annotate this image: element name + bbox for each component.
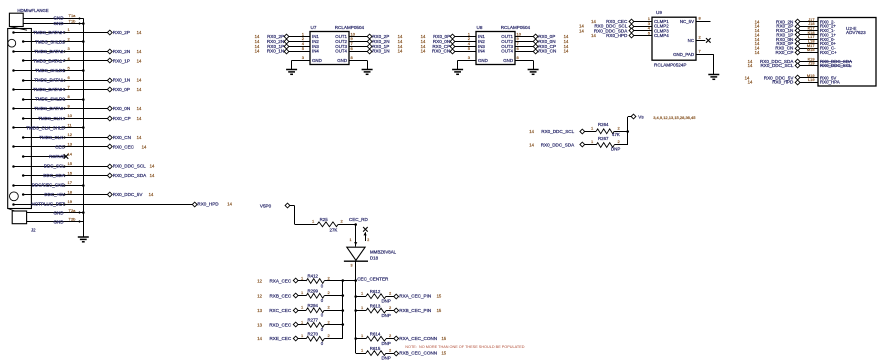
svg-text:14: 14 [150,164,155,169]
svg-text:CEC: CEC [55,144,65,149]
svg-text:Vs: Vs [638,115,644,120]
svg-text:GND: GND [54,21,65,26]
svg-text:MMBZ6V8AL: MMBZ6V8AL [370,250,397,255]
svg-text:RX0_DDC_SCL: RX0_DDC_SCL [541,129,574,134]
svg-text:19: 19 [68,199,73,204]
svg-text:15: 15 [437,308,442,313]
svg-text:14: 14 [137,135,142,140]
svg-text:14: 14 [137,116,142,121]
svg-text:T2b: T2b [69,217,77,222]
svg-text:RX0_DDC_SCL: RX0_DDC_SCL [760,63,793,68]
svg-text:V5P0: V5P0 [260,203,272,208]
svg-text:U7: U7 [311,25,317,30]
svg-text:14: 14 [579,28,584,33]
svg-text:R299: R299 [308,289,319,294]
svg-text:3: 3 [351,264,353,268]
svg-text:14: 14 [142,144,147,149]
svg-text:RX0_DDC_5V: RX0_DDC_5V [113,192,144,197]
svg-text:RXE_CEC: RXE_CEC [269,336,291,341]
svg-text:CEC_RD: CEC_RD [349,217,369,222]
svg-text:DNP: DNP [382,355,391,360]
svg-text:DNP: DNP [382,313,391,318]
svg-text:GND: GND [312,58,322,63]
svg-text:NC: NC [688,38,694,43]
svg-text:10: 10 [68,113,73,118]
svg-text:14: 14 [564,49,569,54]
svg-text:DDC_+5V: DDC_+5V [44,192,64,197]
svg-text:14: 14 [529,143,534,148]
svg-text:17: 17 [68,180,73,185]
svg-text:CEC_CENTER: CEC_CENTER [357,277,389,282]
svg-text:R614: R614 [370,331,381,336]
svg-text:OUT4: OUT4 [335,49,347,54]
svg-text:DDC_SCL: DDC_SCL [44,164,66,169]
svg-text:14: 14 [529,129,534,134]
svg-text:14: 14 [137,106,142,111]
svg-text:13: 13 [257,308,262,313]
svg-text:12: 12 [257,279,262,284]
svg-text:RX0_0P: RX0_0P [113,87,130,92]
svg-text:TMDS_SHLD0: TMDS_SHLD0 [35,97,65,102]
svg-text:14: 14 [149,192,154,197]
svg-text:GND: GND [478,58,488,63]
svg-text:13: 13 [68,142,73,147]
svg-text:RX0_CN: RX0_CN [538,49,556,54]
svg-text:RX0_C+: RX0_C+ [820,50,837,55]
svg-text:RCLAMP0504: RCLAMP0504 [335,25,365,30]
svg-text:R613: R613 [370,303,381,308]
svg-text:RX0_HPD: RX0_HPD [197,202,219,207]
svg-text:12: 12 [257,293,262,298]
svg-text:14: 14 [421,49,426,54]
svg-text:RX0_HPA: RX0_HPA [820,80,840,85]
svg-text:RXB_CEC_CONN: RXB_CEC_CONN [399,351,437,356]
svg-text:RXB_CEC_PIN: RXB_CEC_PIN [399,308,431,313]
svg-text:GND_PAD: GND_PAD [673,52,694,57]
svg-text:47K: 47K [612,132,620,137]
svg-text:RX0_CP: RX0_CP [113,116,131,121]
svg-text:15: 15 [68,161,73,166]
svg-text:14: 14 [137,49,142,54]
svg-text:3,4,9,12,13,15,28,36,45: 3,4,9,12,13,15,28,36,45 [653,115,696,120]
svg-text:IN4: IN4 [312,49,319,54]
svg-text:T1b: T1b [69,18,77,23]
svg-text:RSRVD: RSRVD [49,154,65,159]
svg-text:RX0_0N: RX0_0N [113,106,130,111]
svg-text:OUT4: OUT4 [501,49,513,54]
svg-text:U9: U9 [656,10,662,15]
svg-text:14: 14 [150,173,155,178]
svg-text:RX0_DDC_SCL: RX0_DDC_SCL [820,63,852,68]
svg-text:RX0_2P: RX0_2P [113,30,130,35]
svg-text:R267: R267 [598,136,609,141]
svg-text:RX0_DDC_SCL: RX0_DDC_SCL [113,164,146,169]
svg-text:14: 14 [227,202,232,207]
svg-text:13: 13 [257,322,262,327]
svg-text:DNP: DNP [382,341,391,346]
svg-text:CLMP4: CLMP4 [654,33,669,38]
svg-text:RX0_CEC: RX0_CEC [113,144,135,149]
svg-text:14: 14 [755,50,760,55]
svg-text:14: 14 [257,336,262,341]
svg-text:RX0_HPD: RX0_HPD [606,33,628,38]
svg-text:14: 14 [748,63,753,68]
svg-text:GND: GND [503,58,513,63]
svg-text:DDC_SDA: DDC_SDA [43,173,65,178]
svg-text:TMDS_DATA1+: TMDS_DATA1+ [33,58,65,63]
svg-text:RXD_CEC: RXD_CEC [269,322,292,327]
svg-text:RX0_1N: RX0_1N [113,78,130,83]
svg-text:J19: J19 [808,61,814,66]
svg-text:RXA_CEC_CONN: RXA_CEC_CONN [399,336,437,341]
svg-text:L19: L19 [808,77,815,82]
svg-text:RXC_CEC: RXC_CEC [269,308,292,313]
svg-text:TMDS_CLK_SHLD: TMDS_CLK_SHLD [26,125,65,130]
svg-text:14: 14 [255,49,260,54]
svg-text:D18: D18 [370,255,379,260]
svg-text:RX0_DDC_SDA: RX0_DDC_SDA [541,143,575,148]
svg-text:14: 14 [398,49,403,54]
svg-text:27K: 27K [330,227,338,232]
svg-text:15: 15 [441,336,446,341]
svg-text:RXB_CEC: RXB_CEC [269,293,291,298]
svg-text:R294: R294 [308,303,319,308]
svg-text:RX0_1P: RX0_1P [113,58,130,63]
svg-text:HOTPLUG_DET: HOTPLUG_DET [32,202,66,207]
svg-text:RX0_2N: RX0_2N [113,49,130,54]
svg-text:DNP: DNP [382,299,391,304]
svg-text:18: 18 [68,189,73,194]
svg-text:RX0_1N: RX0_1N [372,49,389,54]
svg-text:R612: R612 [370,289,381,294]
svg-text:TMDS_DATA2-: TMDS_DATA2- [34,49,65,54]
svg-text:GND: GND [337,58,347,63]
svg-text:16: 16 [68,170,73,175]
svg-text:RX0_CN: RX0_CN [113,135,131,140]
svg-text:R277: R277 [308,318,319,323]
svg-text:HDMIwFLANGE: HDMIwFLANGE [17,8,48,13]
svg-text:RX0_HPD: RX0_HPD [772,80,794,85]
svg-text:T2a: T2a [69,208,77,213]
svg-text:TMDS_CLK+: TMDS_CLK+ [38,116,65,121]
svg-text:TMDS_DATA2+: TMDS_DATA2+ [33,30,65,35]
svg-text:GND: GND [54,219,65,224]
svg-text:J2: J2 [31,227,36,232]
svg-text:14: 14 [748,80,753,85]
svg-text:14: 14 [591,33,596,38]
svg-text:TMDS_DATA0-: TMDS_DATA0- [34,106,65,111]
svg-text:14: 14 [137,30,142,35]
svg-text:15: 15 [441,351,446,356]
svg-text:RCLAMP0524P: RCLAMP0524P [654,63,686,68]
svg-text:RX0_CN: RX0_CN [432,49,450,54]
svg-text:R25: R25 [320,217,329,222]
svg-text:TMDS_DATA0+: TMDS_DATA0+ [33,87,65,92]
svg-text:R412: R412 [308,274,319,279]
svg-text:1: 1 [350,238,352,242]
svg-text:NOTE: NO MORE THAN ONE OF THE: NOTE: NO MORE THAN ONE OF THESE SHOULD B… [405,345,524,349]
svg-text:2: 2 [367,238,369,242]
svg-text:RX0_CP: RX0_CP [776,50,794,55]
svg-text:14: 14 [137,87,142,92]
svg-text:GND: GND [54,211,65,216]
svg-text:GND: GND [54,16,65,21]
svg-text:TMDS_SHLD2: TMDS_SHLD2 [35,39,65,44]
svg-text:DDC/CEC_GND: DDC/CEC_GND [32,183,66,188]
svg-text:TMDS_CLK-: TMDS_CLK- [39,135,65,140]
svg-text:RXA_CEC: RXA_CEC [269,279,291,284]
svg-text:R615: R615 [370,346,381,351]
svg-text:14: 14 [137,78,142,83]
svg-text:NC_5V: NC_5V [680,19,694,24]
svg-text:DNP: DNP [611,146,620,151]
svg-text:R270: R270 [308,331,319,336]
svg-text:ADV7623: ADV7623 [846,30,866,35]
svg-text:M18: M18 [807,47,815,52]
svg-text:R264: R264 [598,122,609,127]
svg-text:14: 14 [137,58,142,63]
svg-text:RXA_CEC_PIN: RXA_CEC_PIN [399,294,431,299]
svg-text:T1a: T1a [69,13,77,18]
svg-text:TMDS_DATA1-: TMDS_DATA1- [34,78,65,83]
svg-text:14: 14 [68,151,73,156]
svg-text:TMDS_SHLD1: TMDS_SHLD1 [35,68,65,73]
svg-text:12: 12 [68,132,73,137]
svg-text:U8: U8 [477,25,483,30]
svg-text:15: 15 [437,294,442,299]
svg-text:RCLAMP0504: RCLAMP0504 [501,25,531,30]
svg-text:RX0_1N: RX0_1N [267,49,284,54]
svg-text:RX0_DDC_SDA: RX0_DDC_SDA [113,173,147,178]
svg-text:IN4: IN4 [478,49,485,54]
